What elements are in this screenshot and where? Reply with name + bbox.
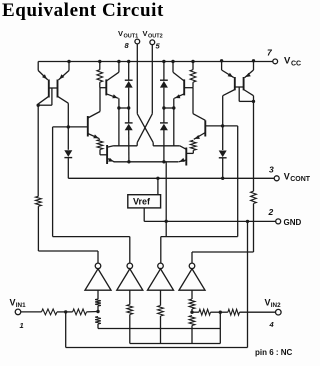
- svg-text:IN1: IN1: [16, 302, 26, 309]
- svg-text:1: 1: [20, 321, 24, 330]
- svg-text:CONT: CONT: [290, 176, 311, 183]
- svg-text:GND: GND: [284, 218, 302, 227]
- svg-text:V: V: [143, 29, 148, 38]
- svg-text:pin 6 : NC: pin 6 : NC: [255, 348, 293, 357]
- svg-text:5: 5: [156, 42, 161, 51]
- svg-text:8: 8: [125, 41, 130, 50]
- svg-text:IN2: IN2: [271, 302, 281, 309]
- svg-text:CC: CC: [291, 60, 301, 67]
- svg-text:OUT2: OUT2: [148, 34, 163, 40]
- svg-text:3: 3: [269, 165, 274, 175]
- svg-text:4: 4: [269, 320, 275, 329]
- svg-text:Vref: Vref: [133, 197, 151, 207]
- svg-text:V: V: [10, 298, 16, 308]
- svg-text:2: 2: [268, 207, 274, 217]
- svg-text:OUT1: OUT1: [124, 34, 139, 40]
- svg-text:7: 7: [267, 48, 273, 58]
- svg-text:V: V: [118, 29, 123, 38]
- svg-text:V: V: [265, 297, 271, 307]
- svg-text:V: V: [284, 171, 290, 181]
- svg-text:V: V: [284, 55, 291, 66]
